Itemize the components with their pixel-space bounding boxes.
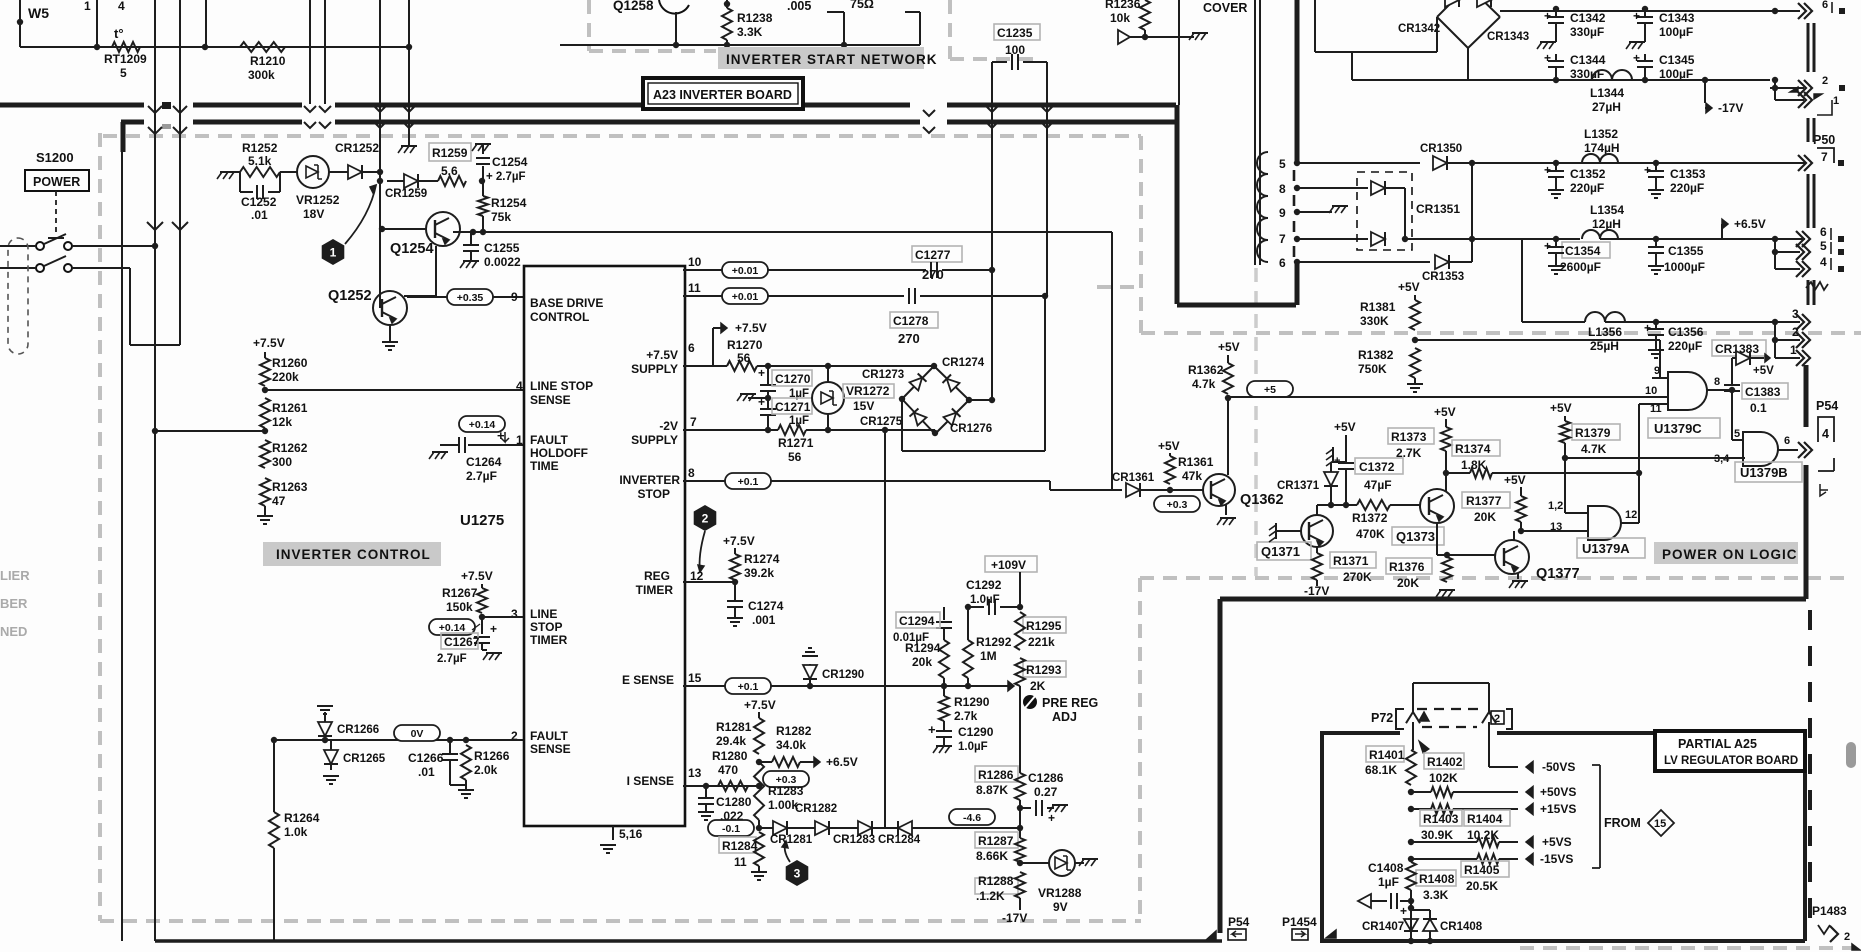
resistor R1295 [1023, 617, 1066, 633]
svg-text:STOP: STOP [638, 487, 670, 501]
svg-text:15: 15 [1654, 818, 1666, 830]
dashed border mid-right [1141, 331, 1861, 335]
svg-text:R1290: R1290 [954, 695, 990, 709]
svg-text:-2V: -2V [659, 419, 678, 433]
diode CR1407 [1408, 905, 1414, 911]
svg-text:300k: 300k [248, 68, 275, 82]
svg-text:+: + [758, 366, 765, 380]
resistor R1280 [718, 781, 748, 791]
svg-text:220µF: 220µF [1570, 181, 1604, 195]
svg-text:R1361: R1361 [1178, 455, 1214, 469]
ground Q1362 [1225, 504, 1227, 515]
diode CR1351b [1371, 232, 1385, 246]
vertical wire C1235 right [1046, 62, 1048, 296]
-17V supply [1019, 898, 1021, 910]
svg-text:R1236: R1236 [1105, 0, 1141, 11]
svg-text:CR1266: CR1266 [337, 724, 379, 736]
chassis ground [1540, 41, 1556, 43]
svg-text:C1372: C1372 [1359, 460, 1395, 474]
svg-text:R1405: R1405 [1464, 863, 1500, 877]
bottom-right dashed border [1520, 946, 1861, 950]
svg-text:R1286: R1286 [978, 768, 1014, 782]
svg-text:+5V: +5V [1434, 405, 1456, 419]
resistor R1271 [778, 425, 806, 435]
svg-text:6: 6 [1822, 0, 1828, 11]
node [377, 169, 383, 175]
svg-text:R1267: R1267 [442, 586, 478, 600]
resistor R1373 [1388, 428, 1434, 444]
svg-text:R1403: R1403 [1423, 812, 1459, 826]
AND gate U1379C [1668, 372, 1707, 410]
svg-text:7: 7 [1821, 150, 1828, 164]
svg-text:C1383: C1383 [1745, 385, 1781, 399]
hex flag 1 [322, 239, 345, 265]
svg-text:12k: 12k [272, 415, 292, 429]
resistor R1287 [975, 832, 1018, 848]
dashed border stub [1097, 285, 1141, 289]
switch dashed capsule [8, 238, 28, 354]
diode CR1259 [379, 172, 381, 181]
resistor R1374 [1452, 440, 1500, 456]
svg-text:CR1342: CR1342 [1398, 23, 1440, 35]
svg-text:C1408: C1408 [1368, 861, 1404, 875]
A25 border [1320, 731, 1324, 941]
wire +15VS [1408, 806, 1414, 812]
svg-text:8: 8 [1279, 182, 1286, 196]
svg-text:2: 2 [702, 512, 709, 526]
svg-text:C1264: C1264 [466, 455, 502, 469]
wire bridge left [1314, 0, 1316, 52]
svg-text:2.7K: 2.7K [1396, 446, 1422, 460]
ground [389, 325, 391, 342]
svg-text:CR1265: CR1265 [343, 753, 386, 765]
supply tap +7.5V [712, 328, 714, 366]
svg-text:27µH: 27µH [1592, 100, 1621, 114]
capacitor C1278 [908, 288, 910, 304]
svg-text:Q1371: Q1371 [1261, 544, 1300, 559]
diode CR1266 [324, 712, 326, 722]
svg-text:TIMER: TIMER [636, 583, 674, 597]
svg-text:20k: 20k [912, 655, 932, 669]
wire to gate [1228, 396, 1668, 398]
svg-text:R1264: R1264 [284, 811, 320, 825]
svg-text:ADJ: ADJ [1052, 710, 1077, 724]
svg-text:Q1254: Q1254 [390, 241, 434, 257]
wire +5VS [1408, 839, 1414, 845]
svg-text:5.6: 5.6 [441, 164, 458, 178]
vertical stubs at bus gap [309, 0, 311, 104]
svg-text:C1343: C1343 [1659, 11, 1695, 25]
svg-text:+0.01: +0.01 [732, 291, 759, 303]
diode CR1283 [829, 827, 858, 829]
svg-text:+7.5V: +7.5V [646, 348, 678, 362]
svg-text:9V: 9V [1053, 900, 1068, 914]
transistor Q1371 [1301, 515, 1333, 547]
svg-text:P54: P54 [1816, 399, 1838, 413]
svg-text:+0.14: +0.14 [469, 419, 496, 431]
svg-text:CONTROL: CONTROL [530, 310, 589, 324]
capacitor C1290 [943, 721, 945, 730]
svg-text:R1379: R1379 [1575, 426, 1611, 440]
section label INVERTER START NETWORK [718, 47, 924, 69]
svg-text:+ 2.7µF: + 2.7µF [486, 171, 526, 183]
svg-text:4.7k: 4.7k [1192, 377, 1216, 391]
svg-text:56: 56 [737, 351, 751, 365]
svg-text:R1402: R1402 [1427, 755, 1463, 769]
zener VR1252 [297, 156, 329, 188]
svg-text:FAULT: FAULT [530, 433, 568, 447]
capacitor C1286 [1017, 805, 1023, 811]
svg-text:56: 56 [788, 450, 802, 464]
connector pins 6 5 4 [1802, 231, 1810, 247]
svg-text:LINE STOP: LINE STOP [530, 379, 593, 393]
capacitor C1254 [479, 178, 485, 184]
thick wire pin5 up [1295, 0, 1300, 163]
capacitor C1255 [470, 232, 472, 244]
svg-text:270K: 270K [1343, 570, 1372, 584]
wire pin6 [683, 365, 727, 367]
svg-text:174µH: 174µH [1584, 141, 1620, 155]
svg-text:2: 2 [1792, 325, 1799, 339]
svg-text:39.2k: 39.2k [744, 566, 774, 580]
svg-text:2.7k: 2.7k [954, 709, 978, 723]
wire Q1377 collector [1513, 531, 1515, 540]
svg-text:C1235: C1235 [997, 26, 1033, 40]
wire pin12 [683, 581, 735, 583]
resistor R1371 [1330, 552, 1376, 568]
resistor R1403 label [1420, 810, 1462, 826]
voltage oval [708, 820, 754, 836]
capacitor C1294 [943, 607, 945, 620]
svg-text:R1284: R1284 [722, 839, 758, 853]
bridge CR1273-76 [902, 366, 969, 434]
svg-text:+0.35: +0.35 [457, 292, 484, 304]
svg-text:10: 10 [688, 255, 702, 269]
svg-text:5: 5 [1820, 239, 1827, 253]
svg-text:4.7K: 4.7K [1581, 442, 1607, 456]
resistor R1362 [1223, 363, 1233, 394]
svg-text:R1371: R1371 [1333, 554, 1369, 568]
svg-text:PRE REG: PRE REG [1042, 696, 1098, 710]
wire gate input9 [1659, 340, 1661, 378]
bus wire top [0, 103, 144, 108]
svg-text:R1404: R1404 [1467, 812, 1503, 826]
from 15 flag [1599, 765, 1601, 868]
resistor R1238 [724, 1, 730, 7]
wire -50VS [1489, 766, 1518, 768]
svg-text:100: 100 [1005, 43, 1025, 57]
svg-text:CR1284: CR1284 [878, 834, 921, 846]
svg-text:9: 9 [511, 290, 518, 304]
svg-text:220k: 220k [272, 370, 299, 384]
svg-text:75Ω: 75Ω [850, 0, 874, 11]
svg-text:L1352: L1352 [1584, 127, 1618, 141]
svg-text:+5V: +5V [1753, 365, 1774, 377]
wire -15VS [1408, 856, 1414, 862]
svg-text:1.00k: 1.00k [768, 798, 798, 812]
svg-text:220µF: 220µF [1670, 181, 1704, 195]
svg-text:.01: .01 [418, 765, 435, 779]
svg-text:VR1252: VR1252 [296, 193, 340, 207]
ground [264, 506, 266, 516]
svg-text:1µF: 1µF [1378, 875, 1399, 889]
long wire to CR1361 [483, 231, 1112, 233]
arrowheads [148, 127, 162, 134]
svg-text:4: 4 [1820, 255, 1827, 269]
resistor R1294 [939, 640, 949, 678]
svg-text:R1238: R1238 [737, 11, 773, 25]
capacitor C1267 [481, 617, 483, 634]
svg-text:.001: .001 [752, 613, 776, 627]
svg-text:-17V: -17V [1304, 584, 1329, 598]
svg-text:9: 9 [1279, 206, 1286, 220]
capacitor C1356 [1653, 319, 1659, 325]
svg-text:.01: .01 [251, 208, 268, 222]
wire L1356 row [1522, 321, 1585, 323]
svg-text:11: 11 [688, 281, 701, 295]
svg-text:CR1259: CR1259 [385, 188, 427, 200]
svg-text:12: 12 [690, 569, 704, 583]
voltage oval [1154, 496, 1200, 512]
wire P72 top [1413, 682, 1489, 684]
resistor R1210 [240, 42, 285, 52]
resistor R1288 [975, 878, 1018, 894]
cover wire [1130, 36, 1194, 38]
svg-text:20K: 20K [1397, 576, 1419, 590]
transistor Q1254 [426, 212, 460, 246]
svg-text:6: 6 [1820, 225, 1827, 239]
svg-text:+109V: +109V [991, 558, 1026, 572]
svg-text:1: 1 [516, 433, 523, 447]
svg-text:5.1k: 5.1k [248, 154, 272, 168]
svg-text:18V: 18V [303, 207, 324, 221]
svg-text:R1293: R1293 [1026, 663, 1062, 677]
svg-text:0.1: 0.1 [1750, 401, 1767, 415]
capacitor C1342 [1553, 6, 1559, 12]
svg-text:POWER ON LOGIC: POWER ON LOGIC [1662, 547, 1798, 562]
svg-text:P50: P50 [1813, 133, 1835, 147]
capacitor C1383 [1742, 383, 1788, 399]
svg-text:+50VS: +50VS [1540, 785, 1576, 799]
wire diode row to chain [912, 827, 1020, 829]
svg-text:29.4k: 29.4k [716, 734, 746, 748]
svg-text:6: 6 [1279, 256, 1286, 270]
svg-text:R1408: R1408 [1419, 872, 1455, 886]
lower rail [1352, 79, 1770, 81]
svg-text:2600µF: 2600µF [1560, 260, 1601, 274]
svg-text:-50VS: -50VS [1542, 760, 1575, 774]
svg-text:U1275: U1275 [460, 512, 504, 529]
wire [280, 171, 297, 173]
svg-text:2.7µF: 2.7µF [466, 469, 497, 483]
svg-text:+: + [1633, 9, 1640, 23]
svg-text:1M: 1M [980, 649, 997, 663]
svg-text:3.3K: 3.3K [1423, 888, 1449, 902]
svg-text:8.87K: 8.87K [976, 783, 1008, 797]
capacitor C1235 [992, 61, 1007, 63]
svg-text:P54: P54 [1228, 915, 1250, 929]
svg-text:R1280: R1280 [712, 749, 748, 763]
capacitor C1352 [1553, 160, 1559, 166]
svg-text:11: 11 [734, 855, 747, 869]
svg-text:470: 470 [718, 763, 738, 777]
svg-text:10: 10 [1645, 385, 1657, 397]
svg-text:2.0k: 2.0k [474, 763, 498, 777]
section label INVERTER CONTROL [263, 542, 441, 566]
svg-text:CR1275: CR1275 [860, 416, 903, 428]
svg-text:1: 1 [1833, 95, 1839, 107]
wire stub [843, 12, 845, 45]
diode CR1353 [1435, 255, 1449, 269]
svg-text:R1283: R1283 [768, 784, 804, 798]
svg-text:8.66K: 8.66K [976, 849, 1008, 863]
chassis ground tap [748, 397, 768, 399]
A23 dashed border lower right vertical [1138, 578, 1142, 921]
svg-text:270: 270 [898, 331, 920, 346]
bottom border line [155, 939, 1222, 943]
transformer winding [1257, 152, 1268, 262]
transformer core [1293, 170, 1296, 181]
svg-text:+: + [1334, 455, 1340, 467]
capacitor C1355 [1655, 239, 1657, 246]
svg-text:+5V: +5V [1398, 280, 1420, 294]
svg-text:R1376: R1376 [1389, 560, 1425, 574]
transistor Q1252 [373, 291, 407, 325]
svg-text:R1287: R1287 [978, 834, 1014, 848]
diode CR1408 [1411, 909, 1430, 911]
svg-text:C1254: C1254 [492, 155, 528, 169]
svg-text:CR1276: CR1276 [950, 423, 992, 435]
svg-text:+0.01: +0.01 [732, 265, 759, 277]
gate label U1379A [1577, 538, 1645, 558]
svg-text:2.7µF: 2.7µF [437, 653, 467, 665]
svg-text:LV REGULATOR BOARD: LV REGULATOR BOARD [1664, 755, 1798, 767]
voltage oval [763, 771, 809, 787]
svg-text:221k: 221k [1028, 635, 1055, 649]
diode CR1350 [1433, 156, 1447, 170]
svg-text:13: 13 [1550, 521, 1562, 533]
svg-text:5: 5 [1279, 157, 1286, 171]
bus wire lower [121, 120, 144, 125]
svg-text:+0.1: +0.1 [738, 476, 759, 488]
svg-text:+: + [1644, 163, 1651, 177]
ground Q1377 [1517, 573, 1519, 579]
svg-text:C1267: C1267 [444, 635, 480, 649]
svg-text:750K: 750K [1358, 362, 1387, 376]
connector edge dashed line [1807, 23, 1810, 72]
resistor R1254 [482, 181, 484, 196]
capacitor C1372 [1355, 458, 1403, 474]
svg-text:0V: 0V [411, 728, 424, 740]
svg-text:R1401: R1401 [1369, 748, 1405, 762]
svg-text:R1372: R1372 [1352, 511, 1388, 525]
resistor RT1209 [112, 42, 140, 52]
svg-text:CR1343: CR1343 [1487, 31, 1529, 43]
svg-text:R1259: R1259 [432, 146, 468, 160]
svg-text:P1483: P1483 [1812, 904, 1847, 918]
wire Q1254 collector [453, 231, 483, 233]
bus corner right [1175, 105, 1180, 304]
wire to gate A input [1565, 512, 1588, 514]
svg-text:R1362: R1362 [1188, 363, 1224, 377]
svg-text:INVERTER: INVERTER [619, 473, 680, 487]
inductor L1356 [1585, 312, 1625, 322]
voltage oval [459, 416, 505, 432]
svg-text:R1381: R1381 [1360, 300, 1396, 314]
svg-text:L1344: L1344 [1590, 86, 1624, 100]
svg-text:270: 270 [922, 267, 944, 282]
resistor R1259 [429, 143, 471, 161]
diode CR1361 [1126, 483, 1140, 497]
wire bridge right vertex [969, 399, 992, 401]
svg-text:2: 2 [1844, 931, 1850, 943]
svg-text:CR1274: CR1274 [942, 357, 985, 369]
wire diode row [758, 820, 760, 828]
svg-text:R1281: R1281 [716, 720, 752, 734]
svg-text:+7.5V: +7.5V [735, 321, 767, 335]
svg-text:R1271: R1271 [778, 436, 814, 450]
svg-text:CR1281: CR1281 [770, 834, 813, 846]
wire pin11 [683, 295, 904, 297]
svg-text:12µH: 12µH [1592, 217, 1621, 231]
wire down from L1354 row [1521, 239, 1523, 322]
capacitor C1354 [1562, 242, 1610, 258]
resistor R1262 [260, 440, 270, 468]
wire R1379 node to gate B [1565, 457, 1743, 459]
diode CR1282 [787, 827, 815, 829]
svg-text:.005: .005 [787, 0, 811, 13]
bridge CR1342 CR1343 [1437, 0, 1500, 48]
svg-text:U1379B: U1379B [1740, 465, 1788, 480]
gate label U1379B [1735, 462, 1802, 482]
capacitor C1252 [239, 172, 241, 192]
switch linkage dashed [55, 191, 57, 236]
svg-text:.1.2K: .1.2K [976, 889, 1005, 903]
shield double line [1254, 0, 1256, 265]
gate label U1379C [1648, 418, 1720, 438]
wire pin10 [683, 269, 926, 271]
resistor R1408 [1416, 870, 1456, 886]
svg-text:I SENSE: I SENSE [627, 774, 674, 788]
power-on-logic dashed border bottom [1140, 576, 1848, 580]
diode CR1284 [872, 827, 898, 829]
resistor R1405 label [1461, 861, 1509, 877]
long vertical wire [154, 0, 156, 941]
svg-text:100µF: 100µF [1659, 25, 1693, 39]
svg-text:+: + [1544, 163, 1551, 177]
transistor Q1377 [1495, 540, 1529, 574]
svg-text:R1294: R1294 [905, 641, 941, 655]
svg-text:20.5K: 20.5K [1466, 879, 1498, 893]
svg-text:12: 12 [1625, 509, 1637, 521]
svg-text:R1282: R1282 [776, 724, 812, 738]
svg-text:R1210: R1210 [250, 54, 286, 68]
shield line gray continuation [1254, 268, 1258, 576]
svg-text:1.0µF: 1.0µF [958, 741, 988, 753]
arrow mark [1326, 930, 1336, 938]
svg-text:R1274: R1274 [744, 552, 780, 566]
svg-text:1.0k: 1.0k [284, 825, 308, 839]
svg-text:BER: BER [0, 596, 28, 611]
capacitor C1344 [1555, 54, 1557, 60]
svg-text:CR1351: CR1351 [1416, 202, 1460, 216]
resistor R1252 [240, 167, 280, 177]
resistor R1263 [260, 478, 270, 506]
svg-text:34.0k: 34.0k [776, 738, 806, 752]
capacitor C1266 [447, 737, 453, 743]
top rail [1500, 10, 1800, 12]
svg-text:U1379C: U1379C [1654, 421, 1702, 436]
